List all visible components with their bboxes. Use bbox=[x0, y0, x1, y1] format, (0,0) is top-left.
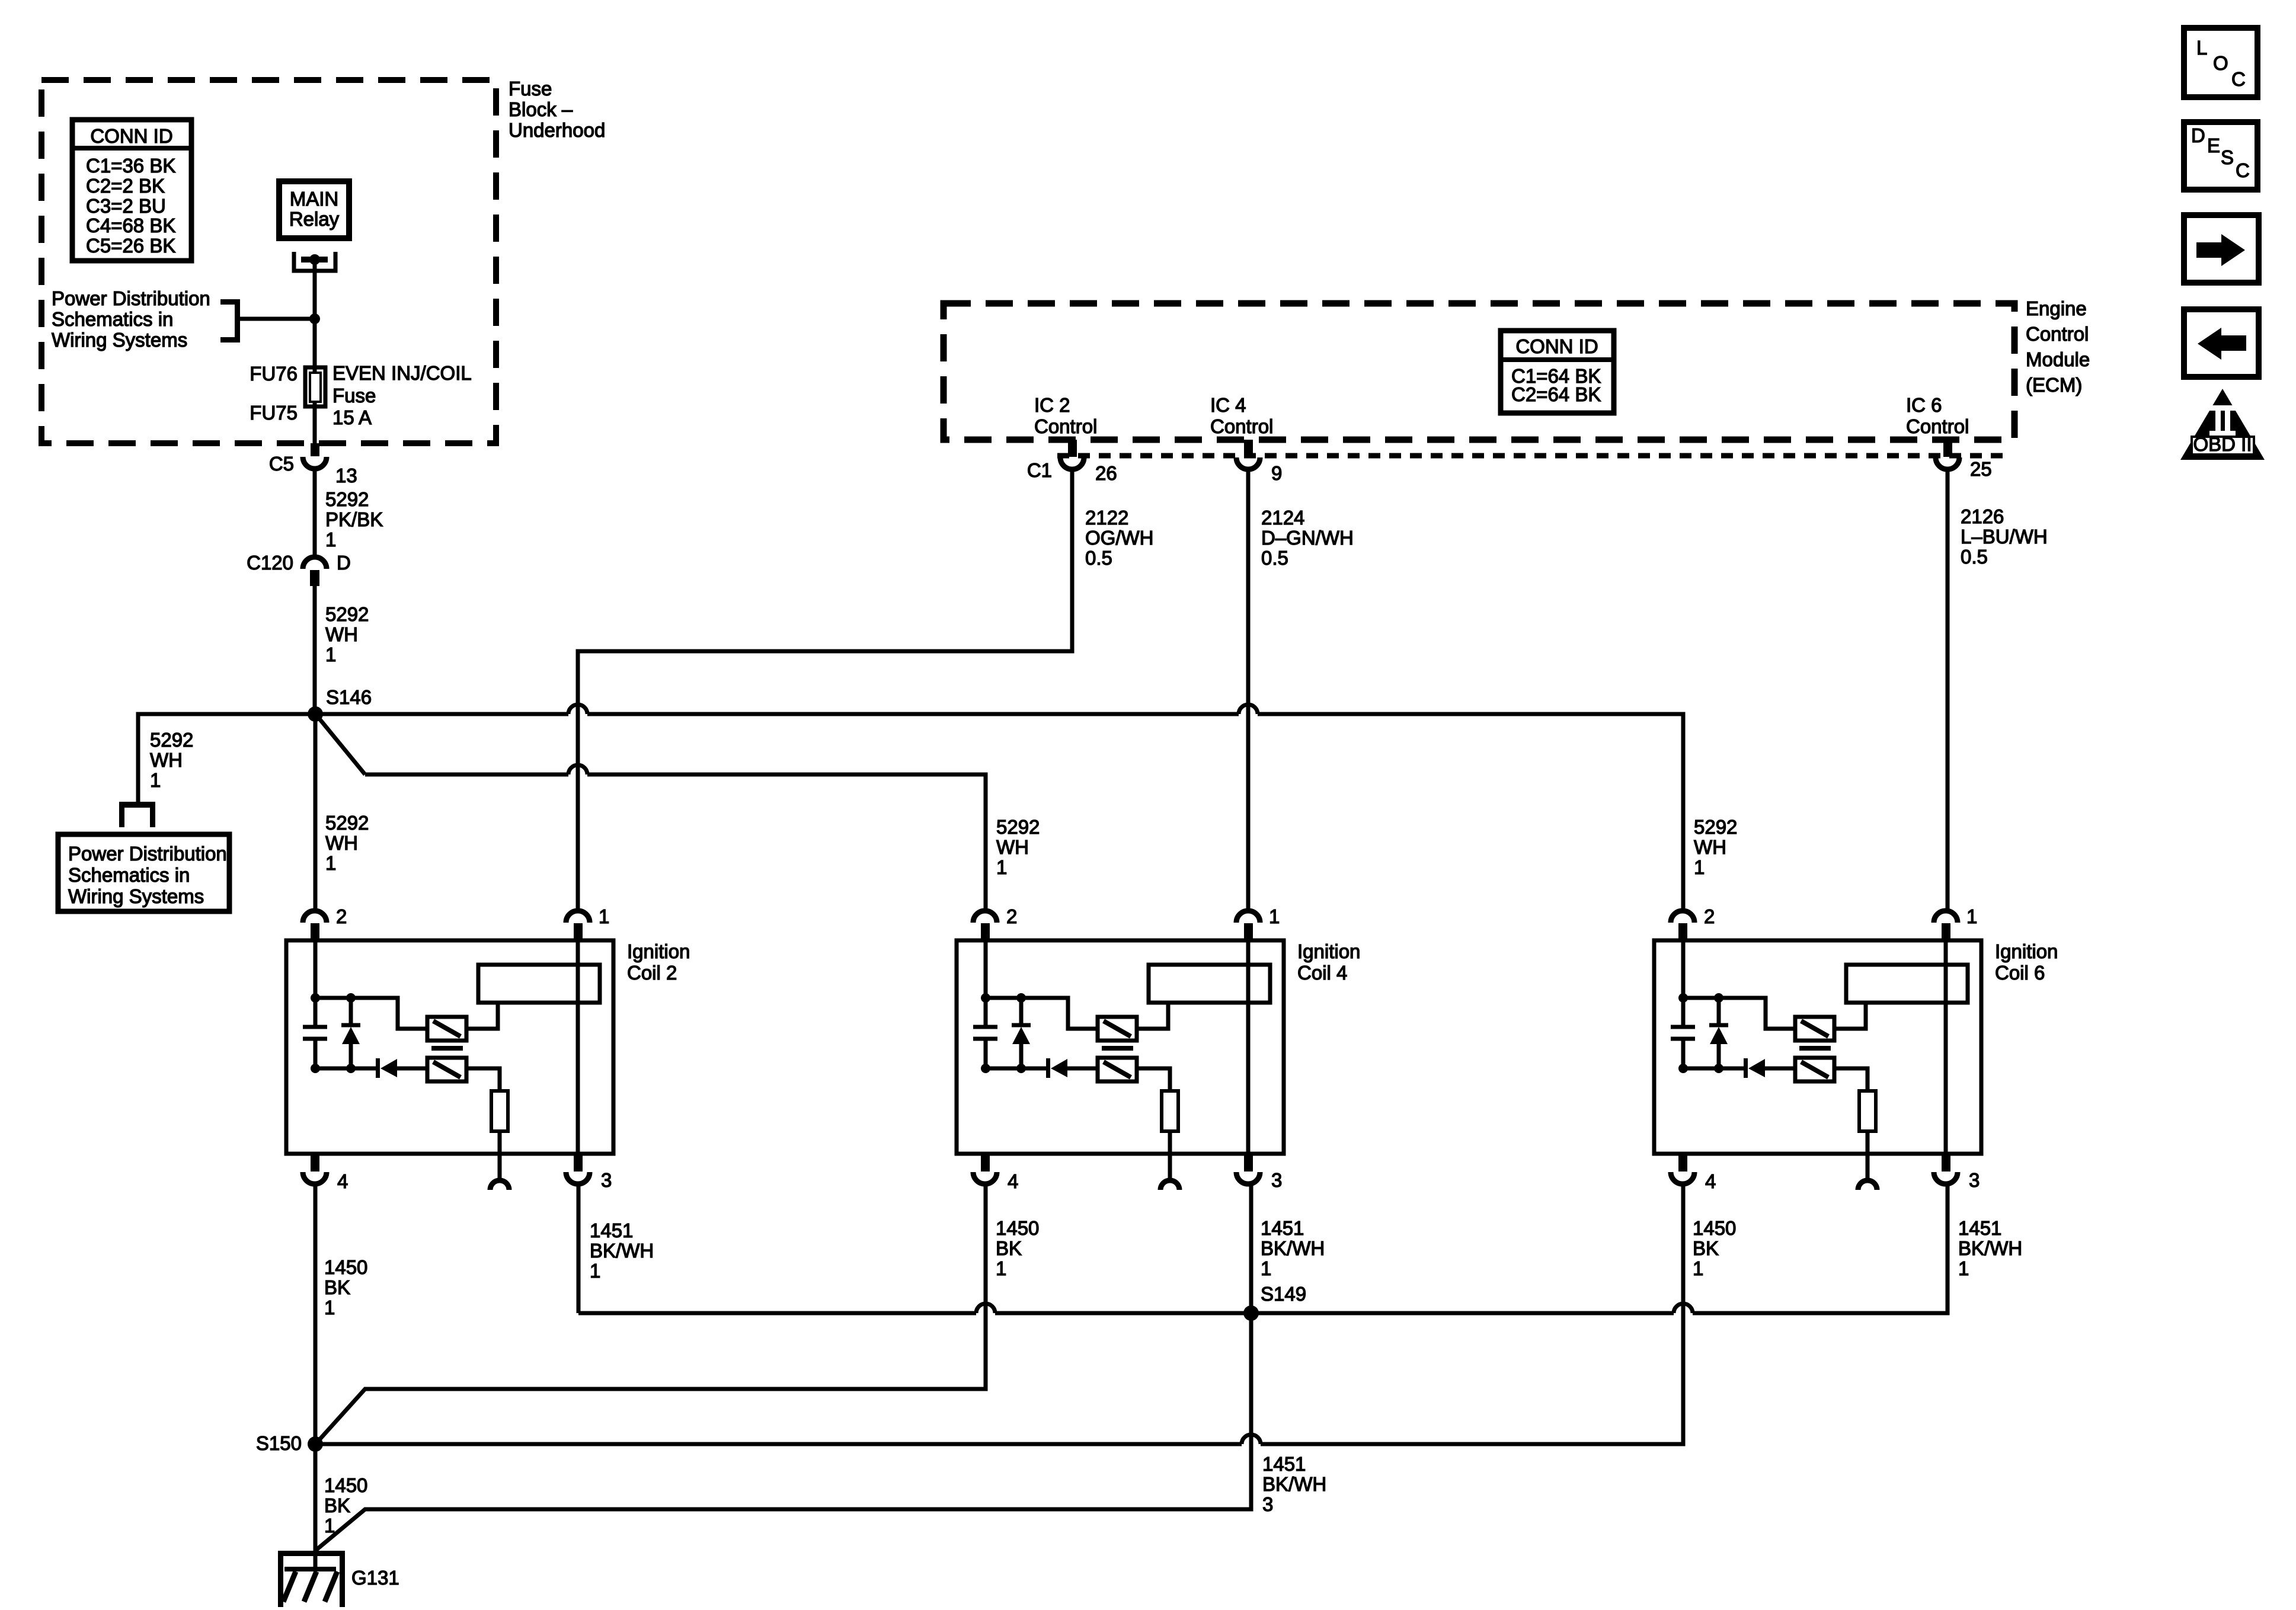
svg-text:BK/WH: BK/WH bbox=[1262, 1473, 1326, 1495]
coil 4 node A bbox=[981, 993, 990, 1003]
wire S146 right branch to coil 6 pin 2 (hops at 975 and 2106) bbox=[315, 712, 568, 716]
wire S146 left branch bbox=[138, 714, 315, 804]
coil 4 pin 1 connector bbox=[1236, 911, 1260, 923]
svg-text:2124: 2124 bbox=[1261, 507, 1304, 529]
svg-text:3: 3 bbox=[1262, 1493, 1273, 1515]
wire S150 diagonal branch to coil 4 pin 4 bbox=[316, 1186, 986, 1443]
coil 4 primary to tower wire bbox=[1137, 1003, 1168, 1029]
coil 4 resistor to terminal wire bbox=[1168, 1131, 1172, 1179]
coil 4 tower block bbox=[1149, 965, 1270, 1003]
relay contact symbol bbox=[294, 252, 335, 319]
svg-text:C4=68 BK: C4=68 BK bbox=[86, 215, 175, 236]
svg-text:2: 2 bbox=[1006, 905, 1017, 927]
svg-text:Ignition: Ignition bbox=[627, 940, 690, 962]
svg-text:5292: 5292 bbox=[996, 816, 1040, 838]
svg-text:0.5: 0.5 bbox=[1961, 546, 1988, 568]
svg-text:C3=2 BU: C3=2 BU bbox=[86, 195, 166, 217]
svg-text:Coil 4: Coil 4 bbox=[1297, 962, 1347, 984]
coil 4 core bbox=[1102, 1046, 1133, 1051]
MAIN relay box bbox=[279, 181, 349, 238]
svg-text:1450: 1450 bbox=[996, 1217, 1039, 1239]
power distribution schematics box bbox=[58, 834, 229, 911]
splice S149 bbox=[1243, 1305, 1259, 1321]
wire IC6 control to coil 6 pin 1 bbox=[1946, 470, 1950, 910]
coil 6 top rail wire bbox=[1683, 998, 1795, 1029]
junction dot bbox=[309, 313, 320, 324]
coil 6 diode bbox=[1744, 1058, 1748, 1078]
coil 6 capacitor bbox=[1671, 1025, 1695, 1029]
svg-text:0.5: 0.5 bbox=[1085, 547, 1112, 569]
svg-text:Power Distribution: Power Distribution bbox=[52, 287, 210, 309]
svg-text:BK/WH: BK/WH bbox=[590, 1240, 654, 1262]
svg-text:Schematics in: Schematics in bbox=[68, 864, 190, 886]
svg-text:Module: Module bbox=[2026, 348, 2090, 370]
svg-text:(ECM): (ECM) bbox=[2026, 374, 2082, 396]
svg-text:BK: BK bbox=[324, 1494, 350, 1516]
svg-text:1: 1 bbox=[1958, 1257, 1969, 1279]
coil 4 node B bbox=[1016, 993, 1026, 1003]
coil 2 secondary winding bbox=[427, 1058, 466, 1081]
svg-text:D–GN/WH: D–GN/WH bbox=[1261, 527, 1354, 549]
svg-text:OG/WH: OG/WH bbox=[1085, 527, 1153, 549]
coil 6 box bbox=[1654, 940, 1981, 1154]
svg-text:1: 1 bbox=[150, 769, 161, 791]
svg-text:Control: Control bbox=[2026, 323, 2089, 345]
svg-text:CONN ID: CONN ID bbox=[90, 125, 172, 147]
coil 2 pin 1 connector bbox=[566, 911, 590, 923]
coil 2 node B bbox=[346, 993, 356, 1003]
svg-text:2: 2 bbox=[336, 905, 347, 927]
svg-text:5292: 5292 bbox=[325, 488, 369, 510]
splice S146 bbox=[308, 706, 323, 722]
coil 6 core bbox=[1799, 1046, 1831, 1051]
coil 2 pin 2 connector bbox=[303, 911, 327, 923]
svg-text:L: L bbox=[2196, 37, 2207, 59]
svg-text:WH: WH bbox=[1694, 836, 1726, 858]
ignition coil 4 bbox=[957, 905, 1360, 1192]
svg-text:1: 1 bbox=[324, 1297, 335, 1318]
svg-text:Fuse: Fuse bbox=[332, 385, 376, 406]
svg-text:C2=64 BK: C2=64 BK bbox=[1511, 383, 1601, 405]
svg-text:D: D bbox=[2191, 124, 2205, 146]
svg-text:1450: 1450 bbox=[324, 1256, 367, 1278]
coil 6 pin1 through wire bbox=[1944, 940, 1948, 1154]
coil 2 zener diode bbox=[349, 998, 353, 1023]
svg-text:1: 1 bbox=[996, 1257, 1006, 1279]
coil 6 resistor bbox=[1859, 1091, 1876, 1131]
svg-text:S149: S149 bbox=[1261, 1283, 1306, 1305]
coil 6 pin 4 connector bbox=[1678, 1154, 1687, 1172]
svg-text:E: E bbox=[2207, 135, 2220, 156]
svg-text:1450: 1450 bbox=[1693, 1217, 1736, 1239]
svg-text:1451: 1451 bbox=[590, 1219, 633, 1241]
wire IC2 control to coil 2 pin 1 bbox=[578, 470, 1072, 910]
svg-text:2126: 2126 bbox=[1961, 505, 2004, 527]
coil 6 secondary to resistor wire bbox=[1834, 1068, 1868, 1091]
svg-text:L–BU/WH: L–BU/WH bbox=[1961, 526, 2048, 548]
wire coil 4 pin 3 down to S149 bbox=[1249, 1186, 1253, 1313]
dotted C1 connector line bbox=[1057, 453, 2003, 459]
wire fuse to box edge bbox=[313, 406, 317, 443]
back arrow icon bbox=[2184, 309, 2259, 377]
wire C5 to C120 bbox=[313, 470, 317, 555]
wire S146 diagonal branch to coil 4 pin 2 (hop at 975) bbox=[316, 715, 365, 774]
coil 2 capacitor bbox=[303, 1025, 327, 1029]
svg-text:WH: WH bbox=[325, 832, 358, 854]
coil 4 secondary winding bbox=[1098, 1058, 1137, 1081]
svg-text:1: 1 bbox=[1261, 1257, 1271, 1279]
svg-text:Coil 6: Coil 6 bbox=[1995, 962, 2045, 984]
coil 2 pin 3 connector bbox=[574, 1154, 583, 1172]
ground G131 bbox=[278, 1551, 345, 1607]
wire bracket tap bbox=[240, 317, 315, 321]
ignition coil 6 bbox=[1654, 905, 2058, 1192]
svg-text:Fuse: Fuse bbox=[509, 78, 552, 100]
OBD II icon bbox=[2180, 389, 2265, 460]
coil 6 spark terminal bbox=[1858, 1180, 1877, 1190]
wire coil 2 pin 4 down to S150 bbox=[314, 1186, 318, 1444]
coil 2 tower block bbox=[478, 965, 600, 1003]
CONN ID table (ECM) bbox=[1501, 331, 1614, 413]
svg-text:25: 25 bbox=[1970, 458, 1992, 480]
coil 6 node D bbox=[1714, 1064, 1723, 1073]
svg-text:5292: 5292 bbox=[325, 603, 369, 625]
svg-text:3: 3 bbox=[1271, 1169, 1282, 1191]
coil 2 node C bbox=[311, 1064, 320, 1073]
wire relay to fuse bbox=[313, 302, 317, 367]
svg-text:C1=36 BK: C1=36 BK bbox=[86, 155, 175, 177]
svg-text:1: 1 bbox=[1966, 905, 1977, 927]
fuse FU76/FU75 EVEN INJ/COIL 15 A bbox=[305, 367, 325, 406]
coil 4 zener diode bbox=[1019, 998, 1024, 1023]
svg-text:FU76: FU76 bbox=[250, 363, 298, 385]
coil 4 internal supply wire bbox=[984, 940, 988, 1027]
coil 2 node D bbox=[346, 1064, 356, 1073]
svg-text:1: 1 bbox=[1693, 1257, 1703, 1279]
svg-text:1: 1 bbox=[1269, 905, 1280, 927]
svg-text:WH: WH bbox=[325, 623, 358, 645]
connector C120 pin D bbox=[303, 557, 327, 586]
engine control module dashed box bbox=[944, 303, 2014, 440]
coil 4 pin1 through wire bbox=[1246, 940, 1251, 1154]
wire S149 down branch to ground bbox=[316, 1313, 1251, 1550]
coil 2 box bbox=[286, 940, 613, 1154]
coil 2 bottom rail wire bbox=[315, 1067, 376, 1071]
coil 2 resistor bbox=[491, 1091, 508, 1131]
LOC icon bbox=[2184, 28, 2257, 97]
coil 4 top rail wire bbox=[986, 998, 1098, 1029]
coil 4 box bbox=[957, 940, 1284, 1154]
svg-text:5292: 5292 bbox=[1694, 816, 1737, 838]
svg-text:3: 3 bbox=[601, 1169, 612, 1191]
coil 2 secondary to resistor wire bbox=[466, 1068, 500, 1091]
coil 6 pin 3 connector bbox=[1942, 1154, 1950, 1172]
svg-text:C5=26 BK: C5=26 BK bbox=[86, 235, 175, 257]
svg-text:1: 1 bbox=[325, 529, 336, 550]
svg-text:2122: 2122 bbox=[1085, 507, 1128, 529]
coil 4 pin 2 connector bbox=[973, 911, 997, 923]
svg-text:WH: WH bbox=[996, 836, 1029, 858]
svg-text:13: 13 bbox=[335, 465, 357, 486]
svg-text:5292: 5292 bbox=[325, 812, 369, 834]
svg-text:1: 1 bbox=[599, 905, 609, 927]
svg-text:1451: 1451 bbox=[1958, 1217, 2001, 1239]
half bracket to power distribution box bbox=[119, 802, 155, 827]
wire C120 to S146 bbox=[313, 585, 317, 714]
coil 4 node C bbox=[981, 1064, 990, 1073]
svg-text:1: 1 bbox=[324, 1515, 335, 1537]
svg-text:2: 2 bbox=[1704, 905, 1715, 927]
bracket to power distribution bbox=[220, 299, 240, 343]
svg-text:4: 4 bbox=[1705, 1170, 1716, 1192]
svg-text:IC 2: IC 2 bbox=[1034, 394, 1070, 416]
coil 4 secondary to resistor wire bbox=[1137, 1068, 1170, 1091]
coil 6 pin 1 connector bbox=[1934, 911, 1958, 923]
ECM pin 25 connector bbox=[1936, 440, 1959, 469]
svg-text:1451: 1451 bbox=[1262, 1453, 1306, 1475]
svg-text:Control: Control bbox=[1034, 415, 1097, 437]
coil 2 primary to tower wire bbox=[466, 1003, 498, 1029]
svg-text:BK: BK bbox=[324, 1276, 350, 1298]
coil 4 capacitor bbox=[973, 1025, 997, 1029]
coil 2 spark terminal bbox=[490, 1180, 509, 1190]
svg-text:Schematics in: Schematics in bbox=[52, 308, 173, 330]
wire IC4 control to coil 4 pin 1 bbox=[1246, 470, 1251, 910]
svg-text:WH: WH bbox=[150, 749, 183, 771]
svg-text:9: 9 bbox=[1271, 462, 1282, 484]
coil 6 tower block bbox=[1846, 965, 1968, 1003]
svg-text:1: 1 bbox=[1694, 856, 1705, 878]
svg-text:O: O bbox=[2213, 52, 2228, 74]
svg-text:5292: 5292 bbox=[150, 729, 193, 751]
svg-text:C1: C1 bbox=[1027, 459, 1052, 481]
svg-text:C2=2 BK: C2=2 BK bbox=[86, 175, 165, 197]
coil 2 pin1 through wire bbox=[576, 940, 580, 1154]
svg-text:S150: S150 bbox=[256, 1432, 302, 1454]
coil 6 primary to tower wire bbox=[1834, 1003, 1866, 1029]
coil 6 primary winding bbox=[1795, 1017, 1834, 1041]
svg-text:CONN ID: CONN ID bbox=[1515, 335, 1598, 357]
svg-text:4: 4 bbox=[337, 1170, 348, 1192]
fuse block underhood dashed box bbox=[41, 80, 496, 443]
coil 2 internal supply wire bbox=[314, 940, 318, 1027]
svg-text:1451: 1451 bbox=[1261, 1217, 1304, 1239]
CONN ID table (fuse block) bbox=[72, 120, 191, 261]
svg-text:Engine: Engine bbox=[2026, 297, 2087, 319]
ECM pin 26 connector bbox=[1060, 440, 1084, 469]
svg-text:Coil 2: Coil 2 bbox=[627, 962, 677, 984]
svg-text:G131: G131 bbox=[351, 1567, 399, 1589]
svg-text:1: 1 bbox=[325, 644, 336, 665]
svg-text:BK/WH: BK/WH bbox=[1261, 1237, 1325, 1259]
svg-text:Power Distribution: Power Distribution bbox=[68, 843, 227, 865]
wire 1451 ground net: coil2 pin3 down bbox=[577, 1186, 581, 1313]
splice S150 bbox=[308, 1436, 323, 1452]
DESC icon bbox=[2184, 122, 2257, 190]
coil 4 node D bbox=[1016, 1064, 1026, 1073]
forward arrow icon bbox=[2184, 215, 2259, 283]
coil 4 pin 4 connector bbox=[981, 1154, 990, 1172]
svg-text:BK: BK bbox=[996, 1237, 1022, 1259]
svg-text:C5: C5 bbox=[269, 453, 294, 475]
coil 6 bottom rail wire bbox=[1683, 1067, 1744, 1071]
coil 2 node A bbox=[311, 993, 320, 1003]
wire S150 down to G131 bbox=[314, 1444, 318, 1569]
svg-text:15 A: 15 A bbox=[332, 406, 372, 428]
svg-text:BK: BK bbox=[1693, 1237, 1719, 1259]
svg-text:BK/WH: BK/WH bbox=[1958, 1237, 2022, 1259]
svg-text:D: D bbox=[337, 552, 351, 574]
svg-text:FU75: FU75 bbox=[250, 402, 298, 424]
wire 1451 horizontal (hops at 1663 and 2840) bbox=[578, 1311, 976, 1315]
svg-text:4: 4 bbox=[1008, 1170, 1018, 1192]
coil 4 bottom rail wire bbox=[986, 1067, 1046, 1071]
svg-text:MAIN: MAIN bbox=[290, 188, 339, 210]
coil 4 diode bbox=[1046, 1058, 1050, 1078]
svg-text:Relay: Relay bbox=[289, 208, 340, 230]
svg-text:Block –: Block – bbox=[509, 98, 573, 120]
svg-text:Underhood: Underhood bbox=[509, 119, 605, 141]
svg-text:C: C bbox=[2231, 68, 2246, 90]
svg-text:1: 1 bbox=[590, 1260, 600, 1282]
coil 2 top rail wire bbox=[315, 998, 427, 1029]
coil 2 resistor to terminal wire bbox=[498, 1131, 502, 1179]
svg-text:Ignition: Ignition bbox=[1297, 940, 1360, 962]
coil 2 core bbox=[431, 1046, 463, 1051]
coil 6 resistor to terminal wire bbox=[1866, 1131, 1870, 1179]
svg-text:Ignition: Ignition bbox=[1995, 940, 2058, 962]
connector C5 pin 13 bbox=[303, 443, 327, 469]
svg-text:C: C bbox=[2236, 159, 2250, 181]
coil 4 resistor bbox=[1162, 1091, 1178, 1131]
ignition coil 2 bbox=[286, 905, 690, 1192]
svg-text:1: 1 bbox=[325, 852, 336, 874]
svg-text:Wiring Systems: Wiring Systems bbox=[68, 885, 204, 907]
svg-text:PK/BK: PK/BK bbox=[325, 508, 383, 530]
svg-text:1450: 1450 bbox=[324, 1474, 367, 1496]
svg-text:3: 3 bbox=[1969, 1169, 1980, 1191]
svg-text:IC 4: IC 4 bbox=[1210, 394, 1246, 416]
svg-text:OBD II: OBD II bbox=[2193, 433, 2252, 455]
coil 4 primary winding bbox=[1098, 1017, 1137, 1041]
coil 6 zener diode bbox=[1717, 998, 1721, 1023]
svg-text:C120: C120 bbox=[247, 552, 293, 574]
coil 6 pin 2 connector bbox=[1671, 911, 1694, 923]
coil 6 secondary winding bbox=[1795, 1058, 1834, 1081]
svg-text:IC 6: IC 6 bbox=[1906, 394, 1942, 416]
svg-text:1: 1 bbox=[996, 856, 1007, 878]
svg-text:0.5: 0.5 bbox=[1261, 547, 1288, 569]
coil 2 pin 4 connector bbox=[311, 1154, 319, 1172]
svg-text:S146: S146 bbox=[326, 686, 372, 708]
svg-text:Control: Control bbox=[1906, 415, 1969, 437]
wire S146 down to coil 2 pin 2 bbox=[314, 714, 318, 910]
svg-text:EVEN INJ/COIL: EVEN INJ/COIL bbox=[332, 362, 472, 384]
coil 6 node C bbox=[1678, 1064, 1688, 1073]
coil 4 spark terminal bbox=[1160, 1180, 1179, 1190]
coil 2 primary winding bbox=[427, 1017, 466, 1041]
ECM pin 9 connector bbox=[1236, 440, 1260, 469]
svg-text:26: 26 bbox=[1095, 462, 1117, 484]
svg-text:Control: Control bbox=[1210, 415, 1273, 437]
coil 4 pin 3 connector bbox=[1244, 1154, 1253, 1172]
wire S150 right branch to coil 6 pin 4 (hop at 2111) bbox=[315, 1442, 1242, 1446]
coil 6 node B bbox=[1714, 993, 1723, 1003]
svg-text:Wiring Systems: Wiring Systems bbox=[52, 329, 187, 351]
coil 2 diode bbox=[376, 1058, 380, 1078]
coil 6 node A bbox=[1678, 993, 1688, 1003]
svg-text:S: S bbox=[2221, 146, 2234, 168]
coil 6 internal supply wire bbox=[1681, 940, 1686, 1027]
